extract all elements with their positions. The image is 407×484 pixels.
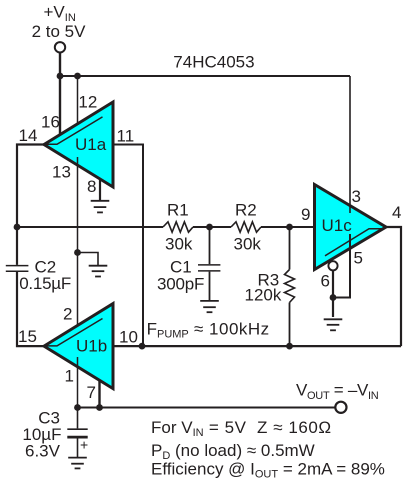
- node junction pin5 pin6: [330, 294, 337, 301]
- wire pin 7 down: [98, 380, 100, 407]
- node junction C1 tap: [206, 224, 213, 231]
- wire rail segment mid: [193, 226, 231, 228]
- ground C3: [68, 458, 87, 469]
- node junction pin 1 C3: [74, 404, 81, 411]
- svg-text:300pF: 300pF: [157, 275, 204, 294]
- terminal Vout: [335, 402, 346, 413]
- wire pin 12: [77, 76, 79, 132]
- svg-text:74HC4053: 74HC4053: [173, 53, 254, 72]
- svg-text:16: 16: [41, 112, 60, 131]
- wire F pump rail: [113, 345, 401, 347]
- wire rail segment right to pin 9: [261, 226, 315, 228]
- ground tap: [89, 266, 108, 277]
- wire pin 11 down: [113, 145, 143, 347]
- wire pin 4 output: [386, 227, 402, 346]
- node junction pin 7: [96, 404, 103, 411]
- capacitor C1: [198, 227, 220, 301]
- wire +VIN vertical to pin 16: [59, 53, 61, 135]
- svg-text:2: 2: [63, 304, 72, 323]
- terminal +VIN: [55, 42, 65, 52]
- node junction VIN rail: [57, 73, 64, 80]
- node junction pin12 tap: [74, 73, 81, 80]
- svg-text:U1b: U1b: [76, 337, 107, 356]
- svg-text:U1a: U1a: [75, 135, 107, 154]
- wire pin 3: [349, 76, 351, 213]
- op-amp U1c: [315, 185, 387, 270]
- ground U1c: [324, 319, 343, 330]
- svg-text:5: 5: [354, 249, 363, 268]
- pin 6 bubble: [328, 261, 337, 270]
- svg-text:12: 12: [78, 92, 97, 111]
- wire pin 6 down: [332, 270, 334, 317]
- node junction pin11 rail: [139, 343, 146, 350]
- wire top rail: [60, 75, 350, 77]
- resistor R2: [231, 222, 261, 232]
- svg-text:6: 6: [321, 272, 330, 291]
- node junction R3 top: [286, 224, 293, 231]
- svg-text:6.3V: 6.3V: [25, 442, 61, 461]
- svg-text:13: 13: [52, 163, 71, 182]
- wire ground tap: [78, 253, 99, 266]
- svg-text:10: 10: [119, 328, 138, 347]
- wire pin 13 to pin 2: [77, 157, 79, 333]
- svg-text:9: 9: [301, 205, 310, 224]
- svg-text:For VIN = 5V Z ≈ 160Ω: For VIN = 5V Z ≈ 160Ω: [151, 418, 332, 439]
- node junction R3 bottom: [286, 343, 293, 350]
- svg-text:30k: 30k: [165, 235, 193, 254]
- svg-text:30k: 30k: [234, 235, 262, 254]
- svg-text:2 to 5V: 2 to 5V: [32, 22, 87, 41]
- ground pin 8: [91, 201, 110, 213]
- node junction tap to ground: [74, 249, 81, 256]
- node junction left bus rail: [14, 224, 21, 231]
- svg-text:8: 8: [87, 177, 96, 196]
- op-amp U1b: [44, 304, 113, 389]
- wire pin 1 down: [77, 357, 79, 408]
- svg-text:14: 14: [19, 126, 38, 145]
- svg-text:4: 4: [392, 203, 401, 222]
- capacitor C2: [6, 266, 29, 272]
- svg-text:7: 7: [87, 383, 96, 402]
- svg-text:+: +: [80, 437, 88, 453]
- svg-text:U1c: U1c: [322, 216, 353, 235]
- svg-text:120k: 120k: [245, 285, 282, 304]
- svg-text:1: 1: [65, 367, 74, 386]
- svg-text:R1: R1: [167, 201, 189, 220]
- wire pin 5: [333, 234, 350, 298]
- svg-text:11: 11: [117, 127, 135, 146]
- wire pin 14 and left bus upper: [17, 145, 44, 265]
- svg-text:15: 15: [18, 327, 37, 346]
- wire rail segment left: [17, 226, 163, 228]
- wire pin 8 stub: [99, 179, 101, 201]
- resistor R1: [163, 222, 193, 232]
- ground C1: [200, 301, 219, 312]
- wire left bus lower and pin 15: [17, 272, 44, 346]
- svg-text:R2: R2: [235, 201, 257, 220]
- resistor R3: [285, 227, 295, 346]
- capacitor C3: [67, 408, 88, 458]
- svg-text:3: 3: [352, 187, 361, 206]
- svg-text:0.15µF: 0.15µF: [19, 274, 71, 293]
- op-amp U1a: [44, 102, 113, 187]
- wire Vout: [78, 407, 335, 409]
